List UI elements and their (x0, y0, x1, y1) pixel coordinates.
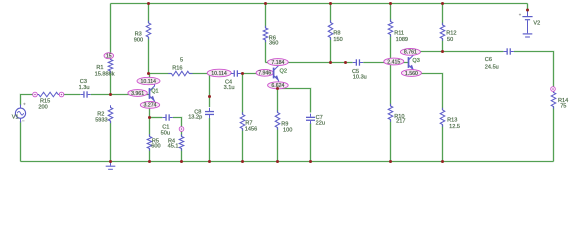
wire R9 top (276, 89, 278, 113)
junction ground rail R10 (389, 160, 392, 163)
resistor R3 (146, 21, 151, 39)
wire R11 bottom (389, 35, 391, 63)
svg-text:R16: R16 (172, 66, 182, 72)
wire R3 top (147, 4, 149, 24)
junction ground rail R9 (276, 160, 279, 163)
wire VCC drop to R1 (109, 4, 111, 60)
label C6 value 24.5u (485, 57, 499, 70)
wire R4 bottom (180, 149, 182, 162)
junction ground rail C8 (208, 160, 211, 163)
label R4 value 45.1 (168, 138, 179, 149)
transistor Q2 (274, 63, 279, 84)
resistor R5 (147, 134, 152, 150)
label R15 value 200 (38, 98, 50, 110)
label C8 value 13.2p (188, 109, 202, 120)
svg-text:5: 5 (180, 58, 183, 64)
svg-text:3.274: 3.274 (144, 103, 157, 109)
svg-text:10.3u: 10.3u (353, 75, 367, 81)
junction ground rail R13 (441, 160, 444, 163)
wire R8 top (329, 4, 331, 23)
wire R9 bottom (276, 128, 278, 162)
label R10 value 217 (394, 114, 405, 125)
label Q2 (280, 69, 287, 75)
wire R10 top (389, 63, 391, 107)
label C5 value 10.3u (352, 69, 367, 81)
svg-text:R1: R1 (96, 65, 103, 71)
wire R12 bottom (441, 39, 443, 52)
wire R5 top (148, 118, 150, 137)
label R16 value 5 (172, 58, 183, 72)
svg-text:V2: V2 (533, 21, 540, 27)
junction ground rail R2 (109, 160, 112, 163)
label R9 value 100 (281, 122, 292, 134)
svg-text:13.2p: 13.2p (188, 115, 202, 121)
transistor Q3 (409, 52, 414, 73)
resistor R6 (263, 26, 268, 42)
wire R7 top (241, 74, 243, 115)
bias label 7.184 Q2 collector (268, 59, 289, 66)
transistor Q1 (150, 83, 155, 104)
svg-text:50u: 50u (161, 130, 170, 136)
svg-text:R13: R13 (447, 118, 457, 124)
label V1 (12, 114, 19, 120)
svg-text:V1: V1 (12, 114, 19, 120)
wire R10 bottom (389, 120, 391, 162)
bias label 10.114 R16 right (207, 69, 231, 77)
capacitor C6 (504, 48, 514, 54)
resistor R14 (551, 90, 556, 108)
bias label 10.114 Q1 collector (137, 77, 160, 85)
junction Q1 base node (109, 93, 112, 96)
label R1 value 15.888k (95, 65, 115, 78)
wire Q3 collector row to C6 (414, 50, 504, 52)
bias label 2.415 Q3 base (384, 58, 404, 65)
wire C5 to Q3 base node (363, 61, 390, 63)
current marker R15 pin 2 (59, 92, 64, 97)
bias label 8.761 Q3 collector (400, 49, 420, 56)
label R5 value 600 (151, 138, 160, 149)
svg-text:22u: 22u (316, 121, 325, 127)
label R12 value 50 (446, 31, 456, 44)
svg-text:7.184: 7.184 (271, 60, 284, 66)
svg-text:150: 150 (333, 37, 342, 43)
svg-text:360: 360 (269, 41, 278, 47)
wire Q2 collector stub (277, 63, 279, 67)
junction ground rail R5 (148, 160, 151, 163)
svg-text:C6: C6 (485, 57, 492, 63)
wire R14 bottom (552, 107, 554, 162)
label C4 value 3.1u (224, 79, 235, 91)
svg-text:1.3u: 1.3u (79, 85, 90, 91)
svg-text:12.5: 12.5 (449, 124, 460, 130)
wire R1 bottom to base node (109, 71, 111, 95)
label R13 value 12.5 (447, 118, 460, 131)
label C1 value 50u (161, 125, 170, 137)
wire R12 top (441, 4, 443, 26)
svg-text:10.114: 10.114 (141, 79, 157, 85)
label C3 value 1.3u (79, 79, 90, 91)
resistor R1 (108, 57, 113, 73)
wire C7 bottom (309, 123, 311, 162)
label Q3 (412, 58, 419, 64)
junction R12 bottom (441, 50, 444, 53)
wire C8 to ground rail (208, 118, 210, 162)
svg-text:600: 600 (151, 144, 160, 150)
wire Q3 base node to Q3 (391, 61, 409, 63)
wire C1 to R4 (173, 118, 182, 137)
wire Q2 emitter node to C7 (278, 89, 311, 113)
junction V2 top (526, 9, 529, 12)
svg-text:8.761: 8.761 (404, 50, 417, 56)
wire R6 top (264, 4, 266, 29)
svg-text:50: 50 (447, 37, 453, 43)
label R14 value 75 (558, 98, 568, 109)
bias label 1.560 Q3 emitter (401, 70, 421, 77)
wire Q1 collector stub (148, 74, 150, 85)
svg-text:1456: 1456 (245, 127, 257, 133)
resistor R15 pins (33, 94, 65, 96)
ground 0 at V2 (523, 34, 533, 37)
wire R15 to C3 (64, 93, 80, 95)
bias label 3.961 Q1 base (128, 90, 147, 97)
svg-text:Q3: Q3 (412, 58, 419, 64)
wire R7 bottom (241, 129, 243, 162)
wire Q1 emitter down (148, 102, 150, 118)
bias label 15 on R1 top (104, 53, 114, 60)
junction top rail R12 (441, 2, 444, 5)
resistor R15 (36, 92, 62, 97)
capacitor C4 (231, 70, 241, 76)
junction C5 left pin (344, 61, 347, 64)
svg-text:Q2: Q2 (280, 69, 287, 75)
svg-text:10.114: 10.114 (211, 71, 227, 77)
junction C8 branch (208, 95, 211, 98)
resistor R7 (240, 112, 245, 130)
junction top rail R8 (329, 2, 332, 5)
wire C8 branch down (208, 74, 210, 108)
junction top rail R6 (264, 2, 267, 5)
wire C3 to Q1 base (91, 93, 150, 95)
svg-text:1089: 1089 (396, 37, 408, 43)
label C7 value 22u (316, 115, 325, 126)
svg-text:217: 217 (396, 119, 405, 125)
wire R13 bottom (441, 125, 443, 162)
wire collector node 2 to C5 (266, 61, 353, 63)
label R2 value 5933 (95, 112, 107, 124)
wire VCC rail to V2 (526, 4, 528, 11)
wire C6 to R14 top (514, 52, 554, 93)
svg-text:5933: 5933 (95, 118, 107, 124)
junction top rail R3 (147, 2, 150, 5)
resistor R11 (388, 19, 393, 36)
resistor R9 (275, 110, 280, 129)
svg-text:24.5u: 24.5u (485, 64, 499, 70)
svg-text:15.888k: 15.888k (95, 71, 115, 77)
label R7 value 1456 (245, 121, 257, 133)
current marker R4 top (179, 127, 184, 132)
voltage source V2 (519, 10, 533, 33)
wire R8 bottom (329, 38, 331, 63)
label R8 value 150 (333, 31, 342, 43)
svg-text:45.1: 45.1 (168, 144, 179, 150)
wire R16 to C4 (189, 72, 231, 74)
label R3 value 900 (134, 31, 143, 43)
svg-text:7.946: 7.946 (258, 71, 271, 77)
wire R11 top (389, 4, 391, 22)
svg-text:75: 75 (560, 103, 566, 109)
svg-text:R9: R9 (281, 122, 288, 128)
wire top VCC rail (111, 2, 528, 4)
junction R8 bottom (329, 61, 332, 64)
capacitor C3 (80, 91, 90, 97)
junction Q3 base node (389, 61, 392, 64)
svg-text:900: 900 (134, 37, 143, 43)
capacitor C1 (162, 114, 172, 120)
bias label 7.946 Q2 base (256, 69, 273, 76)
svg-text:3.961: 3.961 (131, 91, 144, 97)
junction R7 top node (241, 72, 244, 75)
svg-text:200: 200 (38, 104, 47, 110)
svg-text:R12: R12 (446, 31, 456, 37)
junction top rail R11 (389, 2, 392, 5)
svg-text:3.1u: 3.1u (224, 85, 235, 91)
resistor R10 (388, 104, 393, 122)
wire R5 bottom (148, 149, 150, 162)
wire V1 top to R15 (21, 95, 33, 106)
wire R6 bottom to collector node 2 (264, 40, 266, 63)
wire Q3 emitter row to R13 (414, 74, 443, 111)
label V2 (533, 21, 540, 27)
junction Q2 emitter node (276, 87, 279, 90)
wire C4 to Q2 base (241, 72, 274, 74)
capacitor C8 (205, 108, 214, 118)
resistor R2 (108, 105, 113, 123)
resistor R16 (168, 71, 192, 76)
wire emitter node to C1 (150, 116, 163, 118)
wire bottom ground rail (21, 160, 554, 162)
junction collector node C1 (147, 72, 150, 75)
label R11 value 1089 (394, 30, 408, 43)
resistor R4 (179, 134, 184, 150)
ground 0 main (106, 162, 116, 170)
label R6 value 360 (269, 35, 279, 46)
junction ground rail R4 (180, 160, 183, 163)
svg-text:100: 100 (283, 128, 292, 134)
svg-text:2.415: 2.415 (387, 59, 400, 65)
bias label 6.624 Q2 emitter (268, 82, 289, 89)
bias label 3.274 Q1 emitter (140, 102, 159, 109)
wire collector node to R16 (149, 72, 172, 74)
resistor R12 (440, 23, 445, 41)
wire R3 bottom to collector node (147, 37, 149, 74)
svg-text:15: 15 (106, 54, 112, 60)
current marker R15 pin 1 (33, 92, 38, 97)
junction ground rail R7 (241, 160, 244, 163)
svg-text:Q1: Q1 (151, 88, 158, 94)
svg-text:R11: R11 (394, 30, 404, 36)
wire V1 bottom to ground rail (19, 121, 21, 162)
voltage source V1 (15, 103, 25, 123)
current marker R14 top (551, 87, 556, 92)
capacitor C5 (353, 59, 363, 65)
capacitor C7 (306, 114, 315, 124)
label Q1 (151, 88, 158, 94)
svg-text:1.560: 1.560 (405, 71, 418, 77)
resistor R8 (328, 20, 333, 39)
junction ground rail C7 (309, 160, 312, 163)
wire R2 bottom to ground rail (109, 121, 111, 162)
junction emitter node E1 (148, 116, 151, 119)
resistor R13 (440, 108, 445, 127)
svg-text:R8: R8 (333, 31, 340, 37)
